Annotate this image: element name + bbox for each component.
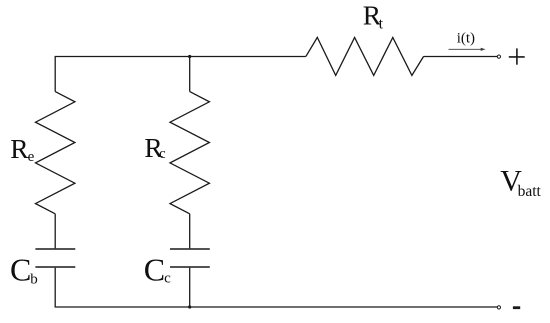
wire Cc to bottom: [189, 268, 191, 307]
wire Rc top stub: [189, 57, 191, 92]
capacitor Cb plates: [35, 248, 75, 250]
resistor Rc: [170, 92, 209, 214]
svg-text:i(t): i(t): [457, 30, 475, 46]
wire Cb to bottom: [55, 268, 497, 307]
terminal plus: [497, 55, 500, 58]
svg-text:t: t: [379, 16, 384, 33]
svg-text:c: c: [159, 146, 166, 162]
node junction bottom: [188, 305, 191, 308]
svg-text:batt: batt: [518, 183, 542, 200]
capacitor Cc plates: [170, 248, 210, 250]
svg-text:R: R: [10, 133, 29, 164]
minus sign: [513, 306, 520, 309]
wire top left segment: [55, 57, 306, 92]
plus sign: [509, 48, 525, 64]
svg-text:C: C: [144, 252, 165, 288]
wire Re to Cb: [54, 214, 56, 249]
current arrow i(t): [449, 48, 486, 51]
node junction top: [188, 55, 191, 58]
svg-text:C: C: [10, 252, 31, 288]
svg-text:e: e: [28, 149, 35, 165]
svg-text:b: b: [30, 271, 38, 287]
resistor Re: [36, 92, 75, 214]
terminal minus: [497, 306, 500, 309]
svg-text:c: c: [164, 270, 171, 286]
resistor Rt: [306, 37, 424, 75]
wire Rc to Cc: [189, 214, 191, 249]
wire top right segment: [424, 56, 498, 58]
